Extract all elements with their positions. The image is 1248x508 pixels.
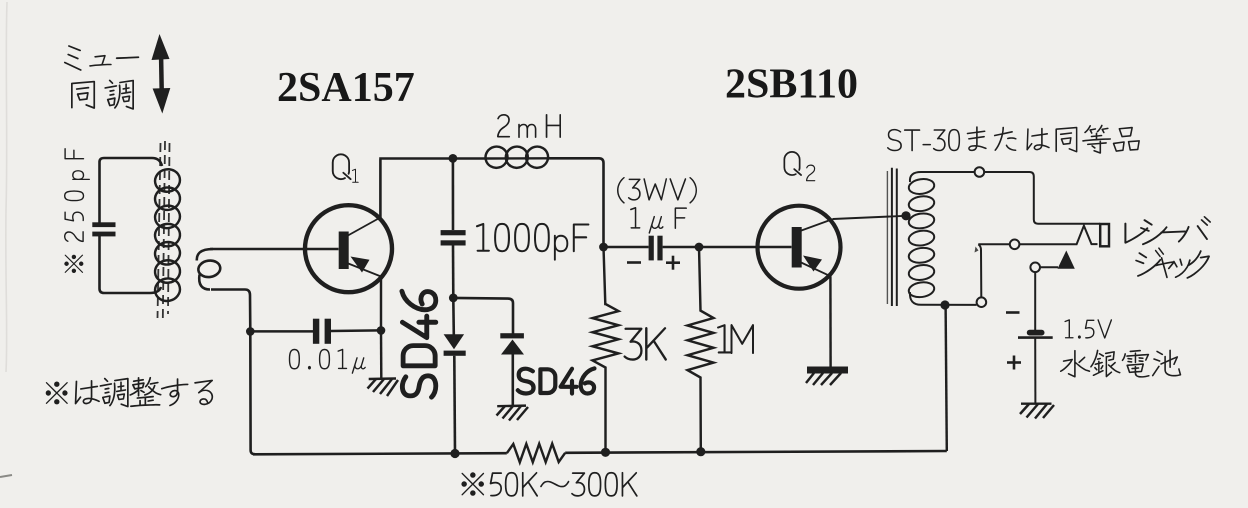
terminal top (open circle) [975,167,985,177]
label 水銀電池 [1060,350,1181,378]
label 3K [623,327,666,361]
label 1μF [630,207,687,234]
wire C3 0.01μ left segment [250,330,313,332]
capacitor C4 1μF (electrolytic) [649,236,663,261]
coil core dashed lines [158,141,170,320]
node transformer tap [901,211,910,220]
resistor R3 (variable 50K-300K) [507,444,565,463]
svg-text:2SB110: 2SB110 [725,62,858,108]
label (3WV) [617,177,697,204]
wire C2 1000pF column [452,158,455,230]
label ※250pF (rotated) [64,148,90,273]
label ST-30または同等品 [887,125,1140,154]
wire bottom rail [253,451,947,454]
scan artifact: left edge streak [6,2,7,372]
label ジャック [1135,247,1210,278]
resistor R2 1M [688,247,714,451]
ground (battery) [1020,404,1054,419]
diode D2 SD46 (cathode top) [500,333,524,406]
ground (Q1 emitter) [368,379,399,397]
node bottom rail D1 [450,449,459,458]
coil L1 tuning winding [153,167,182,303]
wire tip line with middle terminal [978,226,1097,245]
wire winding bottom to bottom terminal [921,304,976,306]
svg-text:2SA157: 2SA157 [277,65,415,111]
label SD46 (rotated, left of D1) [401,290,437,399]
tuning adjust double arrow [152,34,171,114]
transistor Q1 (2SA157) [305,205,392,292]
wire battery top [1034,272,1036,330]
contact arrow (plug tip contact) [1040,251,1075,269]
terminal bottom (open circle) [977,297,987,307]
polarity minus [627,261,641,264]
wire coupling coil down to bottom rail [211,290,250,332]
wire node C to Q2 base [699,246,792,248]
terminal middle (open circle) [1010,240,1020,250]
label 1.5V [1064,319,1112,338]
node bottom rail 1M [696,447,705,456]
ground (Q2 emitter) [806,370,848,385]
wire winding top to terminal and jack sleeve [921,172,1100,224]
capacitor C2 1000pF [441,230,466,245]
jack sleeve (phone plug body) [1100,224,1109,246]
wire tank loop top [100,158,163,223]
wire C4 to node C [663,246,699,248]
wire tank loop bottom [100,236,162,293]
inductor L3 2mH [483,144,550,170]
small arrow artifact on riser [975,247,979,253]
label 2mH [497,114,561,138]
ground (D2) [497,406,529,421]
label 1M [717,324,754,354]
label 0.01μ [289,349,366,374]
wire top rail [379,158,603,247]
wire middle terminal riser down to bottom terminal [978,244,981,297]
wire transformer bottom down to rail [946,305,947,451]
polarity plus [666,256,680,270]
node B 1μF left junction [599,243,608,252]
diode D1 SD46 (anode top) [444,298,466,454]
node C 1μF right junction [695,243,704,252]
node bottom rail 3K [601,448,610,457]
resistor R1 3K [593,247,619,452]
coupling coil L2 [197,249,213,261]
label 1000pF [476,223,589,261]
node transformer bottom [940,300,949,309]
wire node B to C4 [604,246,649,248]
label ミュー同調 (mu tuning) line 1 [64,45,139,71]
polarity minus (battery) [1006,311,1020,314]
wire to diode D2 branch [453,298,513,334]
node diode branch junction [449,294,458,303]
label ミュー同調 (mu tuning) line 2 [71,80,134,110]
wire C3 0.01μ right segment [331,329,381,332]
wire Q1 emitter to ground [380,277,382,331]
scan artifact: bottom-left mark [0,475,12,477]
wire Q2 collector to transformer tap [833,216,906,219]
capacitor 250pF [92,222,115,236]
node C3 right [377,326,386,335]
battery terminal (open circle) [1030,263,1040,273]
node C3 left [246,327,255,336]
label レシーバ [1124,216,1211,245]
wire Q2 emitter to ground [829,276,832,366]
label Q1 [332,153,352,180]
capacitor C3 0.01μ [313,319,331,344]
battery BT1 [1018,330,1053,338]
transformer T1 winding [908,172,935,305]
label ※は調整する [46,377,213,408]
wire Q1 collector riser [379,160,382,218]
transistor Q2 (2SB110) [758,206,841,289]
label ※50K〜300K [461,472,637,497]
wire battery bottom to ground [1034,338,1036,404]
label SD46 (bold, right of D2) [517,367,596,394]
wire coupling coil to Q1 base [210,248,339,251]
label Q2 [784,151,803,176]
node top rail / C2 junction [449,154,458,163]
transformer T1 core [887,168,896,306]
polarity plus (battery) [1007,356,1021,370]
